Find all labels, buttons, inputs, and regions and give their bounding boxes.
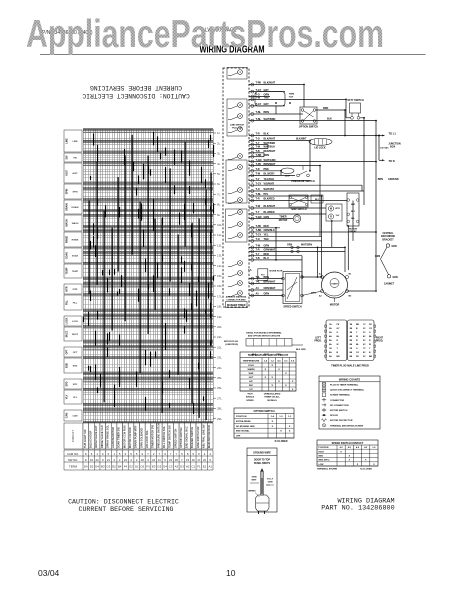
svg-text:OFF: OFF xyxy=(236,436,241,438)
svg-text:G3: G3 xyxy=(180,465,184,469)
svg-text:TLR: TLR xyxy=(289,97,294,99)
wire T-O WHT/VIO xyxy=(249,188,364,192)
wire T-BR ORN xyxy=(249,154,269,158)
svg-text:T-R: T-R xyxy=(256,168,260,171)
svg-text:BLK/WHT: BLK/WHT xyxy=(296,139,307,141)
wire T-GY GRY xyxy=(249,103,285,107)
svg-text:11: 11 xyxy=(158,458,161,462)
svg-text:LOCK: LOCK xyxy=(66,317,69,324)
svg-text:GROUND: GROUND xyxy=(388,178,399,181)
svg-text:24L: 24L xyxy=(217,366,222,370)
svg-text:ORN/WHT: ORN/WHT xyxy=(264,287,276,290)
wire T-B BLU xyxy=(249,257,302,261)
svg-text:CURRENT BEFORE SERVICING: CURRENT BEFORE SERVICING xyxy=(79,506,174,513)
svg-text:BLU/GRY: BLU/GRY xyxy=(264,173,275,176)
timer internal switch group boxes xyxy=(226,99,248,242)
svg-text:12L: 12L xyxy=(217,243,222,247)
svg-text:7L: 7L xyxy=(217,192,221,196)
wire T-PK RED xyxy=(249,225,280,229)
timer chart contact table xyxy=(64,450,213,470)
svg-text:AGIT: AGIT xyxy=(66,170,69,176)
svg-text:G3: G3 xyxy=(107,465,111,469)
node TO N xyxy=(379,159,395,163)
wire vertical xyxy=(361,185,363,191)
svg-text:T-PK: T-PK xyxy=(256,82,262,85)
svg-text:(UNLESS MARKED): (UNLESS MARKED) xyxy=(226,296,247,299)
svg-text:21L: 21L xyxy=(217,335,222,339)
timer cam switch 15 xyxy=(228,291,242,297)
timer cam switch 14 xyxy=(228,281,242,287)
svg-text:RINSE: RINSE xyxy=(72,240,79,242)
svg-text:ORN: ORN xyxy=(264,293,270,296)
svg-text:MAIN MOTOR RUN: MAIN MOTOR RUN xyxy=(207,425,211,448)
timer cam switch 8 xyxy=(228,198,242,204)
svg-text:LINE: LINE xyxy=(73,141,79,143)
svg-text:OPT: OPT xyxy=(73,352,78,354)
svg-text:SPIN: SPIN xyxy=(66,188,69,194)
svg-text:HIGH: HIGH xyxy=(319,451,325,453)
svg-text:VIO/WHT: VIO/WHT xyxy=(264,182,275,185)
svg-text:18: 18 xyxy=(175,458,179,462)
ground bracket xyxy=(375,232,398,285)
svg-text:RELAY: RELAY xyxy=(349,230,357,233)
svg-text:PROD.: PROD. xyxy=(376,341,384,343)
svg-text:TIMER PLUG-MALE LINE PROD: TIMER PLUG-MALE LINE PROD xyxy=(331,364,369,367)
svg-text:CONNECTOR: CONNECTOR xyxy=(330,400,344,402)
svg-text:G1: G1 xyxy=(135,465,139,469)
main motor M1 xyxy=(302,272,376,307)
svg-text:T-BL: T-BL xyxy=(256,111,262,114)
svg-text:W: W xyxy=(369,344,371,346)
wire T-O TAN xyxy=(249,238,322,242)
svg-text:GRN: GRN xyxy=(264,216,270,219)
wire vertical xyxy=(345,99,347,117)
timer cam switch 2 xyxy=(228,103,242,109)
svg-text:TO LT: TO LT xyxy=(267,479,274,481)
motor plug detail xyxy=(224,332,306,357)
svg-text:F1: F1 xyxy=(197,465,201,469)
wire T-GY YEL xyxy=(249,234,322,238)
svg-text:SPEED SWITCH: SPEED SWITCH xyxy=(283,306,301,309)
svg-text:MODELS: MODELS xyxy=(267,400,277,402)
svg-text:WIRING COUNTS: WIRING COUNTS xyxy=(339,377,361,381)
timer chart column labels xyxy=(64,423,213,449)
svg-text:LINE SWITCH SW: LINE SWITCH SW xyxy=(196,426,200,448)
svg-text:WASH VALVE HOT: WASH VALVE HOT xyxy=(94,425,98,448)
svg-text:WHT/GRN: WHT/GRN xyxy=(264,159,276,162)
svg-text:T-Y: T-Y xyxy=(256,142,260,145)
svg-text:LINE SWITCH: LINE SWITCH xyxy=(230,125,245,127)
svg-text:16L: 16L xyxy=(217,284,222,288)
svg-text:T-R: T-R xyxy=(256,198,260,201)
svg-text:LOCK: LOCK xyxy=(72,321,79,323)
svg-text:13L: 13L xyxy=(217,254,222,258)
svg-text:BLK/WHT: BLK/WHT xyxy=(264,82,276,85)
svg-text:CENTRAL: CENTRAL xyxy=(383,232,395,235)
svg-text:WASHER TIMER: WASHER TIMER xyxy=(227,304,246,307)
wire vertical xyxy=(321,196,323,277)
svg-text:YEL: YEL xyxy=(264,234,269,237)
svg-text:MOTOR: MOTOR xyxy=(349,228,358,230)
svg-text:T-GY: T-GY xyxy=(256,182,262,185)
svg-text:SOAK: SOAK xyxy=(66,252,69,259)
wire A5 ORN xyxy=(249,293,283,297)
svg-text:WHT/RED: WHT/RED xyxy=(264,142,276,145)
svg-text:SFTY SWITCH: SFTY SWITCH xyxy=(347,99,363,102)
svg-text:GRN/WHT: GRN/WHT xyxy=(264,249,276,252)
svg-text:END SIGNAL BUZ: END SIGNAL BUZ xyxy=(185,426,189,448)
svg-text:03/04: 03/04 xyxy=(38,568,60,578)
wire T-W BLK/WHT xyxy=(249,205,326,209)
svg-text:24: 24 xyxy=(152,458,156,462)
svg-text:TIMER: TIMER xyxy=(279,217,286,219)
relay box K1 xyxy=(311,195,323,203)
svg-text:18: 18 xyxy=(141,458,145,462)
svg-text:YEL/BLK: YEL/BLK xyxy=(264,178,275,181)
svg-text:T-PK: T-PK xyxy=(256,163,262,166)
ground wire detail box xyxy=(247,448,277,514)
svg-text:PROD.: PROD. xyxy=(314,341,322,343)
svg-text:GRN: GRN xyxy=(392,246,397,248)
svg-text:RINSE VALVE CLD: RINSE VALVE CLD xyxy=(100,425,104,448)
svg-text:MOTOR PLUG: MOTOR PLUG xyxy=(224,341,238,343)
wire vertical xyxy=(303,85,305,108)
svg-text:MOTOR SWITCH: MOTOR SWITCH xyxy=(330,410,348,412)
svg-text:UNREGULATED: UNREGULATED xyxy=(264,393,281,396)
wire vertical xyxy=(301,256,303,277)
wire T-W BLU/GRY xyxy=(249,173,295,177)
svg-text:AGITATE MOTOR: AGITATE MOTOR xyxy=(111,427,115,448)
lid lock solenoid xyxy=(296,138,332,149)
svg-text:RED/WHT: RED/WHT xyxy=(264,150,276,153)
wire T-W GRN xyxy=(249,245,345,249)
svg-text:MOTOR PROTECTOR: MOTOR PROTECTOR xyxy=(330,420,353,422)
svg-text:CIRCUIT: CIRCUIT xyxy=(71,430,75,442)
svg-text:15L: 15L xyxy=(217,274,222,278)
wire T-BR ORN/BLK xyxy=(249,229,376,233)
caution note rotated xyxy=(82,84,190,99)
svg-text:END: END xyxy=(73,366,78,368)
timer T1 dashed enclosure xyxy=(223,68,249,308)
svg-text:PPL: PPL xyxy=(264,193,269,196)
svg-text:MED: MED xyxy=(319,456,324,458)
timer cam switch 12 xyxy=(228,261,242,267)
svg-text:18L: 18L xyxy=(217,305,222,309)
wire T-GY VIO/WHT xyxy=(249,182,362,186)
caution note bottom xyxy=(68,499,179,514)
wire vertical xyxy=(263,153,265,157)
svg-text:TIMER ON ALL: TIMER ON ALL xyxy=(264,396,280,399)
svg-text:T-R: T-R xyxy=(256,249,260,252)
svg-text:RIGHT: RIGHT xyxy=(376,338,384,340)
wire T-GN WHT/GRN xyxy=(249,159,376,163)
part number note xyxy=(321,498,394,513)
svg-text:C/C: C/C xyxy=(249,389,253,391)
svg-text:DISP: DISP xyxy=(285,176,291,178)
svg-text:LID LOCK: LID LOCK xyxy=(314,146,326,149)
timer cam switch 11 xyxy=(228,233,242,239)
wire vertical xyxy=(309,141,311,171)
svg-text:T-W: T-W xyxy=(256,146,261,149)
wire A4 ORN/WHT xyxy=(249,287,283,291)
svg-text:GRN: GRN xyxy=(268,482,273,484)
svg-text:CONNECTOR END: CONNECTOR END xyxy=(226,300,246,302)
svg-text:26L: 26L xyxy=(217,386,222,390)
svg-text:A1: A1 xyxy=(208,465,212,469)
svg-text:LEFT: LEFT xyxy=(315,338,321,340)
timer cam switch 7 xyxy=(228,188,242,194)
svg-text:BLK: BLK xyxy=(327,118,332,121)
wire T-W WHT/BLK xyxy=(249,146,275,150)
svg-text:E2: E2 xyxy=(203,465,207,469)
svg-text:F4: F4 xyxy=(124,465,128,469)
svg-text:W/C: W/C xyxy=(249,385,254,387)
svg-text:VLV: VLV xyxy=(73,397,78,399)
svg-text:TERMINAL (MOUNTED) SCREW: TERMINAL (MOUNTED) SCREW xyxy=(330,424,364,427)
svg-text:PANEL BRKTS: PANEL BRKTS xyxy=(254,462,271,465)
svg-text:WARM: WARM xyxy=(248,368,255,371)
svg-text:WHT/BLK: WHT/BLK xyxy=(264,146,276,149)
wire loop TMR TLR xyxy=(255,92,295,106)
svg-text:BLEACH DISP: BLEACH DISP xyxy=(89,430,93,448)
svg-text:T-O: T-O xyxy=(256,138,260,141)
svg-text:TAN: TAN xyxy=(264,238,269,241)
option switch table xyxy=(234,408,294,443)
wire T-V YEL/BLK xyxy=(249,178,310,182)
svg-text:R: R xyxy=(330,216,332,219)
svg-text:BLU/RED: BLU/RED xyxy=(264,211,275,214)
svg-text:17: 17 xyxy=(197,458,201,462)
svg-text:E2: E2 xyxy=(112,465,116,469)
svg-text:BRN/WHT: BRN/WHT xyxy=(264,281,276,284)
motor relay K2 xyxy=(347,193,359,233)
timer sequence chart grid xyxy=(83,129,214,424)
temperature switch table xyxy=(240,352,296,402)
svg-text:VLV: VLV xyxy=(336,215,340,217)
svg-text:SPD: SPD xyxy=(73,384,78,386)
watermark xyxy=(26,13,384,56)
wire T-BL BRN xyxy=(249,111,303,115)
svg-text:TEMP: TEMP xyxy=(66,267,69,274)
svg-text:PRESSURE SWITCH: PRESSURE SWITCH xyxy=(156,423,160,448)
svg-text:16: 16 xyxy=(192,458,196,462)
svg-text:BRN: BRN xyxy=(311,293,316,295)
svg-text:CAUTION: DISCONNECT ELECTRIC: CAUTION: DISCONNECT ELECTRIC xyxy=(68,499,179,506)
svg-text:LINE: LINE xyxy=(66,138,69,144)
svg-text:MTR: MTR xyxy=(66,286,69,291)
svg-text:SCREW TERMINAL: SCREW TERMINAL xyxy=(330,394,351,397)
timer cam switch 3 xyxy=(228,114,242,120)
svg-text:T-PK: T-PK xyxy=(256,225,262,228)
svg-text:SPRAY RINSE SOL: SPRAY RINSE SOL xyxy=(105,425,109,448)
svg-text:TIMER MOTOR SW: TIMER MOTOR SW xyxy=(151,425,155,448)
wire vertical xyxy=(363,118,365,205)
svg-text:GRN: GRN xyxy=(252,477,257,479)
timer cam switch 1 xyxy=(228,70,242,76)
svg-text:WHT: WHT xyxy=(252,480,258,482)
svg-text:AND OPTION SWITCH CIRCUITS: AND OPTION SWITCH CIRCUITS xyxy=(248,334,281,337)
svg-text:NEUTRAL LINE SW: NEUTRAL LINE SW xyxy=(202,424,206,448)
svg-text:T-BR: T-BR xyxy=(256,229,262,232)
svg-text:SPEED SWITCH CONTACT: SPEED SWITCH CONTACT xyxy=(332,442,364,445)
wire vertical xyxy=(267,145,269,149)
svg-text:WTR: WTR xyxy=(335,208,340,210)
svg-text:3L: 3L xyxy=(217,152,221,156)
svg-text:RINSE: RINSE xyxy=(66,235,69,243)
wire T-PK BLK/WHT xyxy=(249,82,303,86)
timer chart tick labels xyxy=(213,131,222,421)
svg-text:G2: G2 xyxy=(129,465,133,469)
svg-text:23L: 23L xyxy=(217,356,222,360)
svg-text:SW NO.: SW NO. xyxy=(68,458,78,462)
svg-text:SPLICE: SPLICE xyxy=(330,415,338,417)
svg-text:TEMP SWITCH SW: TEMP SWITCH SW xyxy=(168,425,172,448)
svg-text:CAM: CAM xyxy=(73,415,78,418)
wire T-R BLK/RED xyxy=(249,198,347,202)
svg-text:DOOR TO TOP: DOOR TO TOP xyxy=(254,460,270,462)
svg-text:PLUG IN TIMER TERMINAL: PLUG IN TIMER TERMINAL xyxy=(330,384,359,387)
svg-text:SPEED: SPEED xyxy=(246,400,254,402)
svg-text:BLK/WHT: BLK/WHT xyxy=(264,138,276,141)
svg-text:MOTOR: MOTOR xyxy=(330,303,340,307)
svg-text:CAUTION: DISCONNECT ELECTRIC: CAUTION: DISCONNECT ELECTRIC xyxy=(82,92,190,99)
wire T-BL PPL xyxy=(249,193,320,197)
wire T-R PNK xyxy=(249,168,281,172)
svg-text:H2: H2 xyxy=(186,465,190,469)
svg-text:TO N: TO N xyxy=(389,159,395,163)
svg-text:BOX: BOX xyxy=(390,146,396,149)
svg-text:D3: D3 xyxy=(141,465,145,469)
timer cam switch 6 xyxy=(228,165,242,171)
svg-text:T3L: T3L xyxy=(248,270,253,272)
svg-text:25L: 25L xyxy=(217,376,222,380)
svg-text:TEMP SWITCH: TEMP SWITCH xyxy=(290,209,306,211)
svg-text:29L: 29L xyxy=(217,417,222,421)
wire T-O BLK/WHT xyxy=(249,138,309,142)
svg-text:BUZZ: BUZZ xyxy=(72,334,78,336)
dispenser solenoid xyxy=(281,168,294,178)
svg-text:BR: BR xyxy=(356,324,360,326)
speed switch S5 xyxy=(282,272,304,309)
svg-text:RED: RED xyxy=(264,225,269,228)
svg-text:PK: PK xyxy=(369,324,372,326)
svg-text:T-GY: T-GY xyxy=(256,234,262,237)
svg-text:POSITION: POSITION xyxy=(319,447,329,449)
wire T-R BLK xyxy=(249,133,379,137)
wire T-O ORN xyxy=(249,94,270,98)
svg-text:PK: PK xyxy=(356,356,359,358)
svg-text:MOTOR CCW RUN: MOTOR CCW RUN xyxy=(122,425,126,448)
svg-text:RLY: RLY xyxy=(351,211,356,213)
svg-text:11L: 11L xyxy=(217,233,222,237)
wire T-W TAN xyxy=(249,97,346,101)
svg-text:*NOT: *NOT xyxy=(247,394,253,396)
svg-text:T-W: T-W xyxy=(256,97,261,100)
svg-text:T-B: T-B xyxy=(256,150,260,153)
svg-text:6L: 6L xyxy=(217,182,221,186)
svg-text:CAM NO.: CAM NO. xyxy=(67,452,79,456)
footer page labels xyxy=(38,568,236,578)
svg-text:PRESSURE SWITCH: PRESSURE SWITCH xyxy=(291,180,315,183)
svg-text:T-W: T-W xyxy=(256,205,261,208)
svg-text:FILL: FILL xyxy=(73,303,78,305)
ground bus label xyxy=(378,178,399,181)
svg-text:T-BL: T-BL xyxy=(256,193,262,196)
svg-text:TERM: TERM xyxy=(69,465,78,469)
option switch S2 xyxy=(299,107,345,129)
timer cam switch 10 xyxy=(228,222,242,228)
svg-text:120 VAC: 120 VAC xyxy=(380,146,389,149)
svg-text:B-R: B-R xyxy=(351,204,355,206)
temperature switch assembly S6 xyxy=(289,195,308,211)
svg-text:BRN/WHT: BRN/WHT xyxy=(264,163,276,166)
svg-text:T-O: T-O xyxy=(256,188,260,191)
inline connector pair xyxy=(287,245,312,253)
wire T-GY GRY xyxy=(249,89,285,93)
svg-text:GRN: GRN xyxy=(393,277,398,279)
svg-text:LID LOCK SOL: LID LOCK SOL xyxy=(145,430,149,448)
svg-text:DRAIN: DRAIN xyxy=(72,206,79,209)
svg-text:MED (SPC): MED (SPC) xyxy=(319,460,330,462)
svg-text:FILL: FILL xyxy=(66,299,69,305)
svg-text:TUB LIGHT SW: TUB LIGHT SW xyxy=(83,429,87,448)
svg-text:24: 24 xyxy=(124,458,128,462)
junction dots xyxy=(275,84,377,292)
svg-text:T-GN: T-GN xyxy=(256,216,262,219)
svg-text:10: 10 xyxy=(226,568,236,578)
svg-text:BUZZER SWITCH: BUZZER SWITCH xyxy=(190,427,194,448)
wire T-PK BRN/WHT xyxy=(249,163,320,167)
wire vertical xyxy=(275,106,277,114)
svg-text:NO CONNECTION: NO CONNECTION xyxy=(330,405,349,407)
svg-text:WHT/VIO: WHT/VIO xyxy=(264,188,275,191)
svg-text:GRN: GRN xyxy=(264,245,270,248)
svg-text:NO IRONING GRD: NO IRONING GRD xyxy=(236,426,255,428)
svg-text:SPIN SOLENOID: SPIN SOLENOID xyxy=(139,428,143,448)
svg-text:GROUNDING: GROUNDING xyxy=(381,236,396,238)
svg-text:17L: 17L xyxy=(217,294,222,298)
svg-text:5L: 5L xyxy=(217,172,221,176)
svg-text:TEMP: TEMP xyxy=(72,271,79,273)
svg-text:T-BR: T-BR xyxy=(256,154,262,157)
svg-text:WHT/BRN: WHT/BRN xyxy=(264,118,276,121)
pressure switch S4 xyxy=(291,166,315,183)
svg-text:COLD: COLD xyxy=(248,365,255,367)
svg-text:OPTION SWITCH: OPTION SWITCH xyxy=(254,409,275,413)
svg-text:GRN: GRN xyxy=(375,256,380,258)
noise filter Z1 xyxy=(248,269,283,281)
svg-text:T4L: T4L xyxy=(256,281,261,284)
svg-text:GROUND WIRE: GROUND WIRE xyxy=(253,451,271,454)
svg-text:WASH: WASH xyxy=(72,222,79,225)
svg-text:PULL-ON: PULL-ON xyxy=(232,128,242,130)
wire vertical xyxy=(319,166,321,237)
svg-text:22L: 22L xyxy=(217,345,222,349)
svg-text:END SIGNAL: END SIGNAL xyxy=(236,430,250,433)
wire T-Y BLU/RED xyxy=(249,211,326,215)
svg-text:10L: 10L xyxy=(217,223,222,227)
wire vertical xyxy=(331,221,333,247)
svg-text:BRN: BRN xyxy=(264,111,270,114)
wire vertical xyxy=(317,247,319,277)
svg-text:BRN: BRN xyxy=(323,107,328,110)
svg-text:2L: 2L xyxy=(217,141,221,145)
wire T-BL WHT/BRN xyxy=(249,118,376,122)
svg-text:AGIT: AGIT xyxy=(72,172,78,175)
wire vertical xyxy=(347,226,349,270)
svg-text:CAM: CAM xyxy=(66,413,69,418)
svg-text:F3: F3 xyxy=(146,465,150,469)
